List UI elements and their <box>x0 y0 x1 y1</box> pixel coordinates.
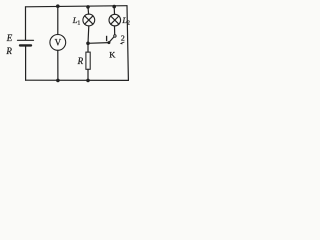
wire lamp L1 branch upper <box>87 7 90 14</box>
wire resistor branch lower <box>87 69 89 80</box>
battery E,R long plate <box>18 39 34 41</box>
wire top <box>26 6 128 7</box>
node bottom voltmeter junction <box>56 79 60 83</box>
switch K pivot dot <box>107 41 110 44</box>
svg-text:2: 2 <box>127 21 130 27</box>
wire left lower (battery negative lead) <box>25 47 27 81</box>
label 1 (contact 1) <box>106 36 108 41</box>
node top L1 junction <box>86 5 90 9</box>
switch K contact 2 circle <box>114 35 116 37</box>
svg-text:R: R <box>5 46 12 56</box>
wire voltmeter branch upper <box>57 6 59 34</box>
svg-text:2: 2 <box>121 33 125 42</box>
svg-text:R: R <box>77 56 84 66</box>
svg-text:K: K <box>109 49 116 59</box>
node top L2 junction <box>112 5 116 9</box>
wire resistor branch upper <box>87 43 89 52</box>
resistor R box <box>86 52 90 69</box>
wire switch horizontal <box>88 42 109 45</box>
lamp L1 circle <box>83 14 95 26</box>
lamp L1 cross <box>85 16 93 24</box>
wire bottom <box>26 79 129 81</box>
lamp L2 cross <box>111 16 119 24</box>
node bottom resistor junction <box>86 79 90 83</box>
wire right <box>127 6 128 81</box>
wire left upper (battery positive lead) <box>25 7 27 40</box>
svg-text:1: 1 <box>77 21 80 27</box>
wire lamp L2 branch lower <box>114 26 116 35</box>
wire lamp L2 branch upper <box>113 7 115 14</box>
battery E,R short plate <box>20 44 31 46</box>
arrow toward contact 2 <box>120 42 125 44</box>
wire lamp L1 branch lower <box>87 26 90 43</box>
lamp L2 circle <box>109 14 121 26</box>
node top voltmeter junction <box>56 4 60 8</box>
voltmeter V circle <box>50 35 66 51</box>
wire voltmeter branch lower <box>57 50 59 80</box>
node L1-switch-resistor junction <box>86 42 90 46</box>
svg-text:V: V <box>55 38 62 48</box>
switch K blade <box>109 37 114 43</box>
svg-text:E: E <box>6 33 13 43</box>
